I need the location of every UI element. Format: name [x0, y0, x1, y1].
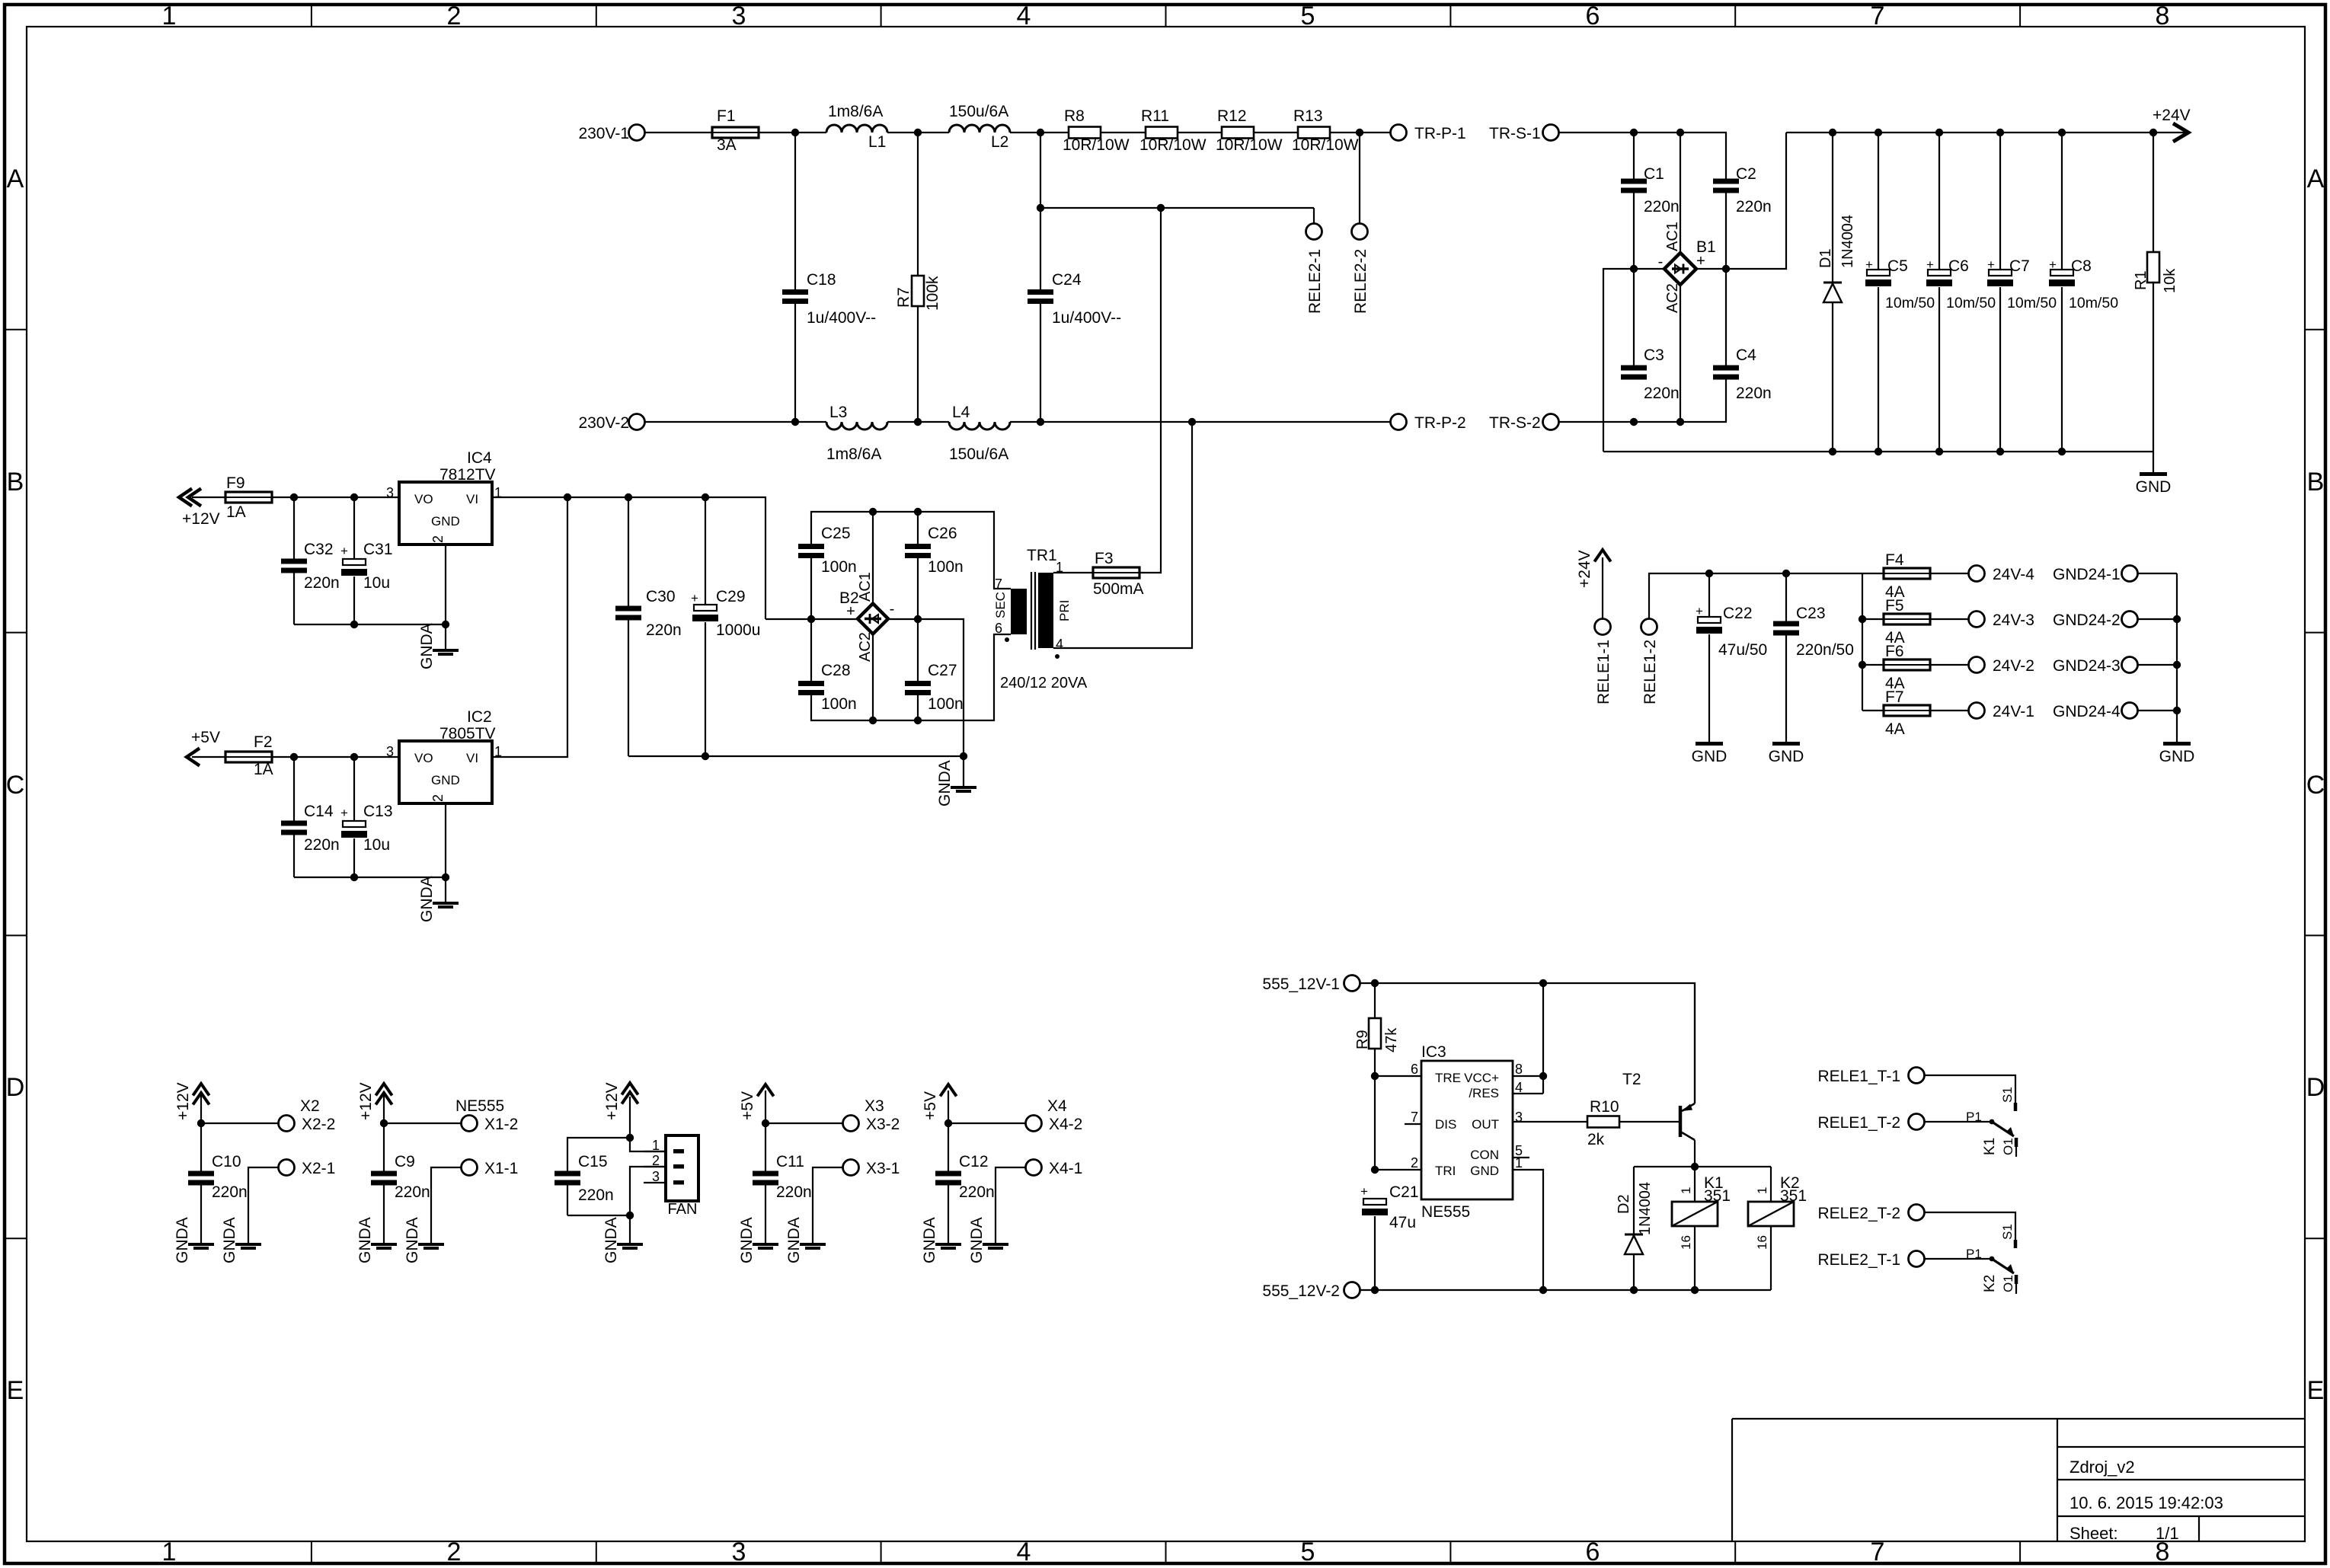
svg-text:GND: GND: [431, 773, 460, 787]
svg-text:1/1: 1/1: [2156, 1524, 2179, 1543]
terminal TR-P-1: [1391, 125, 1466, 143]
wire 555 +12V rail: [1360, 979, 1695, 1103]
svg-text:VO: VO: [414, 751, 433, 765]
svg-text:6: 6: [1411, 1062, 1418, 1077]
svg-text:F3: F3: [1095, 550, 1114, 567]
wire FAN +12V to C15 and pin1: [567, 1134, 666, 1171]
svg-text:C6: C6: [1948, 257, 1969, 275]
terminal TR-P-2: [1391, 414, 1466, 433]
wire TR1 pin4 riser to TR-P-2 net: [1053, 422, 1192, 648]
svg-text:RELE2-1: RELE2-1: [1306, 249, 1324, 314]
terminal X4-2: [1026, 1097, 1083, 1133]
capacitor C6 10m/50: [1926, 133, 1996, 452]
svg-text:1u/400V--: 1u/400V--: [807, 309, 876, 327]
wire relay coil rail: [1634, 1163, 1771, 1170]
svg-text:GND: GND: [2159, 748, 2195, 765]
wire IC3 GND to bottom rail: [1513, 1170, 1543, 1290]
svg-text:D: D: [2306, 1073, 2325, 1102]
svg-text:1A: 1A: [226, 503, 246, 521]
svg-text:A: A: [7, 164, 24, 193]
svg-text:GNDA: GNDA: [785, 1217, 803, 1263]
svg-text:220n: 220n: [959, 1183, 995, 1201]
svg-text:3: 3: [652, 1169, 660, 1184]
svg-text:AC1: AC1: [1664, 222, 1681, 251]
svg-text:GNDA: GNDA: [418, 876, 436, 922]
bridge rectifier B1: [1603, 133, 1786, 452]
svg-text:A: A: [2307, 164, 2325, 193]
terminal RELE1-2: [1641, 619, 1660, 705]
svg-text:5: 5: [1301, 2, 1315, 30]
svg-text:230V-1: 230V-1: [578, 125, 629, 142]
capacitor C25 100n: [798, 525, 857, 619]
svg-text:220n: 220n: [304, 836, 340, 854]
svg-text:X4: X4: [1047, 1097, 1067, 1115]
svg-text:+5V: +5V: [739, 1091, 756, 1120]
svg-text:7: 7: [1411, 1110, 1418, 1125]
svg-text:24V-3: 24V-3: [1993, 612, 2034, 629]
terminal 24V-4: [1969, 566, 2035, 584]
capacitor C5 10m/50: [1865, 133, 1935, 452]
svg-text:C4: C4: [1736, 346, 1756, 364]
wire R9 to IC3 TRE, junction: [1371, 1072, 1421, 1170]
capacitor C9 220n: [371, 1123, 430, 1243]
svg-text:220n: 220n: [1736, 198, 1772, 216]
capacitor C4 220n: [1713, 269, 1772, 402]
fuse F3 500mA: [1093, 550, 1144, 598]
svg-text:L1: L1: [868, 133, 886, 151]
svg-text:100n: 100n: [821, 558, 857, 576]
svg-text:E: E: [7, 1376, 24, 1405]
svg-text:VCC+: VCC+: [1464, 1071, 1499, 1085]
svg-text:C12: C12: [959, 1153, 989, 1170]
capacitor C11 220n: [753, 1123, 812, 1243]
arrow +5V: [187, 729, 225, 766]
wire R10 to T2 base: [1619, 1121, 1679, 1123]
svg-text:TRE: TRE: [1435, 1071, 1461, 1085]
resistor R9 47k: [1354, 983, 1400, 1076]
svg-text:O1: O1: [2001, 1275, 2015, 1292]
svg-text:10m/50: 10m/50: [1946, 295, 1996, 311]
capacitor C8 10m/50: [2049, 133, 2118, 452]
wire K1 S1 branch: [1925, 1075, 2015, 1103]
timer IC3 NE555: [1405, 1043, 1529, 1221]
bridge rectifier B2: [765, 512, 964, 756]
terminal RELE2-1: [1306, 224, 1325, 315]
svg-text:F2: F2: [254, 733, 273, 751]
fuse F2 1A: [225, 733, 273, 778]
diode D2 1N4004: [1616, 1167, 1654, 1290]
wire R12-R13: [1254, 132, 1298, 133]
svg-text:GND24-4: GND24-4: [2053, 703, 2121, 720]
wire 230V-2 to L3, junction C18: [645, 418, 826, 426]
wire IC2 gnd rail: [294, 873, 449, 902]
svg-text:8: 8: [2156, 2, 2170, 30]
svg-text:-: -: [890, 601, 895, 618]
svg-text:220n: 220n: [304, 574, 340, 592]
svg-text:7805TV: 7805TV: [439, 725, 496, 742]
arrow +5V (X3): [739, 1084, 774, 1123]
svg-text:TR-S-2: TR-S-2: [1489, 414, 1541, 432]
terminal GND24-1: [2053, 566, 2138, 584]
wire F6 to terminal: [1931, 664, 1968, 666]
terminal GND24-3: [2053, 657, 2138, 675]
wire B2 cap bottom rail: [811, 634, 1011, 724]
svg-text:47k: 47k: [1383, 1027, 1400, 1052]
svg-text:47u: 47u: [1389, 1214, 1416, 1231]
svg-text:SEC: SEC: [993, 592, 1008, 618]
inductor L1 1m8/6A: [826, 103, 887, 151]
terminal X3-1: [813, 1160, 900, 1244]
wire F1 to L1, junction C18: [759, 129, 826, 136]
capacitor C3 220n: [1621, 269, 1680, 402]
svg-text:7: 7: [995, 576, 1002, 592]
svg-text:24V-2: 24V-2: [1993, 657, 2034, 675]
wire F7 to terminal: [1931, 710, 1968, 711]
svg-text:4: 4: [1056, 637, 1063, 652]
ground GNDA (X1-1): [418, 1243, 444, 1246]
ground GND (GND24): [2163, 742, 2191, 746]
svg-text:7: 7: [1871, 1538, 1885, 1566]
svg-text:10R/10W: 10R/10W: [1063, 136, 1130, 154]
ground GND (24V filter): [2140, 472, 2167, 476]
wire X1 supply row: [380, 1119, 462, 1127]
svg-text:C29: C29: [716, 588, 746, 605]
svg-text:C31: C31: [363, 541, 393, 558]
capacitor C27 100n: [905, 619, 964, 720]
wire GND24 collector rail: [2173, 573, 2181, 742]
svg-text:+: +: [691, 591, 698, 605]
wire F9 to IC4, junctions C32 C31: [272, 493, 399, 501]
svg-text:220n/50: 220n/50: [1796, 641, 1854, 659]
svg-text:GND: GND: [1692, 748, 1728, 765]
svg-text:8: 8: [1515, 1062, 1523, 1077]
svg-text:C5: C5: [1887, 257, 1908, 275]
svg-text:AC2: AC2: [1664, 283, 1681, 313]
svg-text:L3: L3: [829, 404, 847, 421]
wire L3 to L4, junction R7: [887, 418, 949, 426]
svg-text:1: 1: [1679, 1187, 1693, 1194]
svg-text:+: +: [340, 544, 348, 558]
capacitor C30 220n: [615, 497, 682, 756]
svg-text:B: B: [2307, 468, 2325, 497]
svg-text:E: E: [2307, 1376, 2325, 1405]
svg-text:R9: R9: [1354, 1030, 1371, 1049]
svg-text:1: 1: [162, 2, 177, 30]
wire fuse branch riser: [1859, 573, 1866, 711]
svg-text:4A: 4A: [1885, 720, 1905, 738]
svg-text:C10: C10: [212, 1153, 241, 1170]
svg-text:10k: 10k: [2162, 268, 2178, 293]
connector FAN: [644, 1135, 698, 1218]
svg-text:C27: C27: [928, 662, 957, 679]
capacitor C15 220n: [555, 1153, 614, 1215]
svg-text:K1: K1: [1982, 1138, 1998, 1155]
fuse F9 1A: [225, 474, 272, 521]
svg-text:RELE1_T-1: RELE1_T-1: [1817, 1068, 1900, 1085]
svg-text:L2: L2: [991, 133, 1008, 151]
wire X4 supply row: [944, 1119, 1026, 1127]
inductor L4 150u/6A: [949, 404, 1010, 463]
ground GND (C23): [1772, 742, 1800, 746]
capacitor C21 47u: [1360, 1166, 1419, 1290]
svg-text:10u: 10u: [363, 574, 390, 592]
svg-text:B: B: [7, 468, 24, 497]
terminal GND24-2: [2053, 612, 2138, 630]
svg-text:10R/10W: 10R/10W: [1139, 136, 1207, 154]
wire 230V-1 to F1: [645, 132, 712, 133]
svg-text:+: +: [1865, 257, 1873, 272]
ground GNDA (C10): [188, 1243, 214, 1246]
svg-text:220n: 220n: [646, 621, 682, 639]
terminal X2-2: [279, 1097, 336, 1133]
svg-text:GND: GND: [2136, 478, 2172, 496]
wire IC4 VI rail, junctions IC2 feed C30 C29: [492, 493, 765, 619]
wire +24V DC rail: [1786, 129, 2188, 136]
svg-text:C: C: [6, 771, 25, 800]
capacitor C26 100n: [905, 512, 964, 619]
svg-text:+: +: [1696, 253, 1705, 270]
svg-text:/RES: /RES: [1469, 1086, 1499, 1100]
svg-text:1m8/6A: 1m8/6A: [828, 103, 883, 120]
capacitor C31 10u: [340, 497, 393, 624]
transistor T2 (PNP): [1622, 983, 1695, 1167]
wire R11-R12: [1178, 132, 1222, 133]
terminal TR-S-2: [1489, 414, 1559, 433]
wire L1 to L2, junction R7: [887, 129, 949, 136]
svg-text:GND: GND: [1470, 1164, 1499, 1178]
svg-text:TR-P-1: TR-P-1: [1414, 125, 1466, 142]
svg-text:+12V: +12V: [603, 1082, 621, 1120]
svg-text:+12V: +12V: [357, 1082, 375, 1120]
svg-text:X4-2: X4-2: [1049, 1116, 1082, 1133]
svg-text:C24: C24: [1052, 271, 1082, 289]
svg-text:TR-P-2: TR-P-2: [1414, 414, 1466, 432]
svg-text:220n: 220n: [1644, 385, 1680, 402]
svg-text:5: 5: [1301, 1538, 1315, 1566]
inductor L3 1m8/6A: [826, 404, 887, 463]
capacitor C7 10m/50: [1987, 133, 2057, 452]
svg-text:1N4004: 1N4004: [1839, 215, 1856, 268]
svg-text:T2: T2: [1622, 1071, 1641, 1088]
svg-text:X2-2: X2-2: [302, 1116, 335, 1133]
svg-text:C13: C13: [363, 803, 393, 820]
capacitor C23 220n/50: [1773, 573, 1854, 742]
svg-text:NE555: NE555: [455, 1097, 504, 1115]
svg-text:220n: 220n: [212, 1183, 248, 1201]
svg-text:+12V: +12V: [174, 1082, 192, 1120]
terminal X1-2: [455, 1097, 518, 1133]
svg-text:100n: 100n: [928, 558, 964, 576]
svg-text:RELE1-2: RELE1-2: [1641, 640, 1659, 704]
capacitor C12 220n: [935, 1123, 995, 1243]
svg-text:R8: R8: [1064, 107, 1085, 125]
svg-text:C8: C8: [2071, 257, 2092, 275]
FAN supply block: [603, 1082, 638, 1138]
svg-text:X2: X2: [300, 1097, 320, 1115]
svg-text:150u/6A: 150u/6A: [949, 103, 1008, 120]
resistor R12 10R/10W: [1216, 107, 1283, 154]
svg-text:220n: 220n: [578, 1186, 614, 1204]
svg-text:R11: R11: [1141, 107, 1169, 125]
svg-text:+: +: [2049, 257, 2057, 272]
svg-text:3: 3: [386, 485, 394, 500]
svg-text:1u/400V--: 1u/400V--: [1052, 309, 1121, 327]
terminal X2-1: [248, 1160, 335, 1244]
capacitor C32 220n: [281, 497, 340, 624]
svg-text:1A: 1A: [254, 761, 273, 778]
svg-text:C2: C2: [1736, 165, 1756, 183]
capacitor C18 1u/400V--: [782, 133, 876, 422]
svg-text:GNDA: GNDA: [356, 1217, 374, 1263]
terminal GND24-4: [2053, 703, 2138, 721]
svg-text:240/12 20VA: 240/12 20VA: [1000, 675, 1088, 691]
terminal RELE1_T-1: [1817, 1068, 1924, 1086]
ground GNDA (C11): [753, 1243, 778, 1246]
svg-text:GND: GND: [431, 514, 460, 529]
ground GNDA (C9): [371, 1243, 397, 1246]
svg-text:Zdroj_v2: Zdroj_v2: [2070, 1458, 2135, 1477]
svg-text:2: 2: [430, 794, 446, 802]
wire F4 to terminal: [1931, 573, 1968, 574]
svg-text:16: 16: [1755, 1235, 1769, 1250]
capacitor C14 220n: [281, 757, 340, 877]
svg-text:3: 3: [732, 2, 746, 30]
svg-text:+: +: [846, 603, 855, 620]
svg-text:TRI: TRI: [1435, 1164, 1456, 1178]
svg-text:CON: CON: [1470, 1148, 1499, 1162]
ground GNDA (FAN): [617, 1243, 643, 1246]
svg-text:10R/10W: 10R/10W: [1292, 136, 1359, 154]
svg-text:220n: 220n: [1644, 198, 1680, 216]
wire +24V distribution rail: [1649, 570, 1862, 618]
capacitor C28 100n: [798, 619, 857, 713]
svg-text:L4: L4: [952, 404, 970, 421]
terminal RELE2_T-2: [1817, 1205, 1924, 1223]
terminal RELE1_T-2: [1817, 1114, 1924, 1132]
wire L4 to TR-P-2, junctions C24 and TR1 pin4: [1010, 418, 1390, 426]
svg-text:RELE2-2: RELE2-2: [1352, 249, 1370, 314]
svg-text:220n: 220n: [776, 1183, 812, 1201]
svg-text:D: D: [6, 1073, 25, 1102]
resistor R10 2k: [1587, 1098, 1619, 1148]
svg-text:+: +: [340, 806, 348, 820]
relay coil K2 351: [1748, 1167, 1807, 1290]
svg-text:C18: C18: [807, 271, 836, 289]
svg-text:2k: 2k: [1587, 1131, 1605, 1148]
svg-text:GNDA: GNDA: [404, 1217, 421, 1263]
svg-text:D2: D2: [1616, 1194, 1632, 1214]
svg-text:3A: 3A: [717, 136, 737, 154]
wire RELE2_T-1 to K2 contact: [1925, 1258, 1992, 1260]
svg-text:X4-1: X4-1: [1049, 1160, 1082, 1177]
svg-text:IC3: IC3: [1421, 1043, 1446, 1061]
svg-text:C28: C28: [821, 662, 851, 679]
svg-text:GNDA: GNDA: [921, 1217, 938, 1263]
svg-text:GNDA: GNDA: [418, 623, 436, 669]
svg-text:S1: S1: [2000, 1224, 2015, 1240]
svg-text:4: 4: [1017, 1538, 1031, 1566]
fuse F1 3A: [712, 107, 759, 154]
svg-text:GNDA: GNDA: [936, 760, 954, 806]
wire TR-S-2 rail, junctions C3 AC2: [1559, 379, 1726, 426]
wire GND rail: [1603, 448, 2153, 455]
svg-text:+12V: +12V: [182, 510, 220, 528]
svg-text:C3: C3: [1644, 346, 1664, 364]
svg-text:F7: F7: [1885, 688, 1904, 706]
capacitor C2 220n: [1713, 165, 1772, 269]
wire F3 riser to RELE2 net: [1139, 208, 1161, 573]
terminal 230V-1: [578, 125, 644, 143]
svg-text:C14: C14: [304, 803, 334, 820]
terminal RELE2-2: [1352, 224, 1370, 315]
arrow +5V (X4): [922, 1084, 957, 1123]
svg-text:351: 351: [1704, 1187, 1731, 1205]
capacitor C22 47u/50: [1696, 573, 1767, 742]
arrow +24V: [2153, 107, 2191, 142]
ground GNDA (X2-1): [235, 1243, 261, 1246]
svg-text:16: 16: [1679, 1235, 1693, 1250]
svg-text:2: 2: [1411, 1155, 1418, 1170]
ground GNDA (X3-1): [800, 1243, 826, 1246]
svg-text:6: 6: [1586, 1538, 1600, 1566]
svg-text:100k: 100k: [924, 276, 941, 311]
svg-text:D1: D1: [1817, 248, 1834, 268]
resistor R8 10R/10W: [1063, 107, 1130, 154]
svg-text:10m/50: 10m/50: [2069, 295, 2118, 311]
svg-text:C1: C1: [1644, 165, 1664, 183]
svg-text:TR1: TR1: [1027, 547, 1057, 564]
wire IC2 VI riser: [492, 497, 567, 757]
svg-text:+: +: [1360, 1184, 1368, 1199]
svg-text:2: 2: [447, 2, 462, 30]
terminal 555_12V-1: [1262, 976, 1360, 994]
svg-text:+: +: [1987, 257, 1995, 272]
svg-text:VI: VI: [466, 751, 478, 765]
wire 555 bottom rail: [1360, 1286, 1771, 1294]
svg-text:R12: R12: [1217, 107, 1247, 125]
svg-text:10m/50: 10m/50: [2007, 295, 2057, 311]
svg-text:RELE2_T-1: RELE2_T-1: [1817, 1251, 1900, 1269]
fuse F6 4A: [1862, 643, 1930, 692]
arrow +12V: [179, 489, 225, 529]
voltage regulator IC2 7805TV: [386, 708, 502, 877]
wire RELE2 net: [1040, 133, 1360, 224]
svg-text:GND24-3: GND24-3: [2053, 657, 2121, 675]
svg-text:C11: C11: [776, 1153, 804, 1170]
svg-text:R10: R10: [1590, 1098, 1619, 1116]
transformer TR1 240/12 20VA: [993, 547, 1088, 691]
svg-text:IC4: IC4: [467, 449, 492, 467]
svg-text:C26: C26: [928, 525, 957, 542]
svg-text:VI: VI: [466, 492, 478, 506]
svg-text:AC2: AC2: [857, 632, 874, 662]
svg-text:220n: 220n: [1736, 385, 1772, 402]
wire IC3 VCC/RES riser: [1513, 983, 1547, 1094]
diode D1 1N4004: [1817, 133, 1856, 452]
svg-text:24V-4: 24V-4: [1993, 566, 2034, 583]
svg-text:555_12V-1: 555_12V-1: [1262, 976, 1340, 993]
wire C15 bottom to GNDA and FAN pin2: [567, 1167, 666, 1243]
wire IC3 TRI row: [1375, 1169, 1421, 1170]
fuse F5 4A: [1862, 597, 1930, 647]
svg-text:47u/50: 47u/50: [1718, 641, 1767, 659]
svg-text:2: 2: [447, 1538, 462, 1566]
svg-text:GNDA: GNDA: [221, 1217, 238, 1263]
wire GND24-3 to gnd rail: [2138, 664, 2177, 666]
svg-text:1: 1: [162, 1538, 177, 1566]
relay coil K1 351: [1672, 1167, 1731, 1290]
ground GNDA (X4-1): [983, 1243, 1008, 1246]
